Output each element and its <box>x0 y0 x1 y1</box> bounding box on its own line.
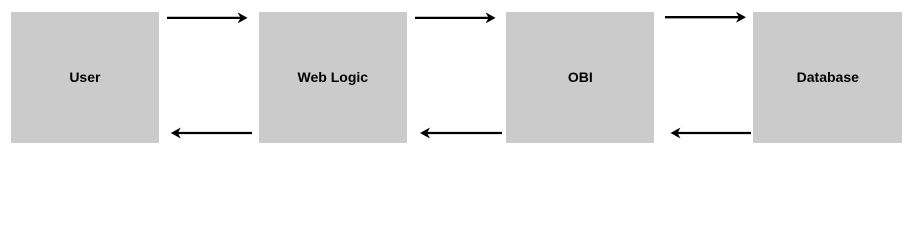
box OBI <box>506 12 654 143</box>
arrow OBI to Database (top, right-pointing) <box>665 12 746 23</box>
box User <box>11 12 158 143</box>
arrow User to Web Logic (top, right-pointing) <box>167 12 248 23</box>
arrow Web Logic to OBI (top, right-pointing) <box>415 12 496 23</box>
arrow OBI to Web Logic (bottom, left-pointing) <box>420 128 502 139</box>
box Web Logic <box>259 12 407 143</box>
arrow Database to OBI (bottom, left-pointing) <box>671 128 752 139</box>
box Database <box>753 12 902 143</box>
arrow Web Logic to User (bottom, left-pointing) <box>171 128 252 139</box>
